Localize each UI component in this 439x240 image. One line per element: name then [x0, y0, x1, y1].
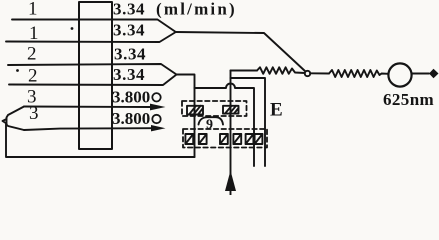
svg-text:3: 3 [29, 103, 39, 124]
wire valve left vertical V1 [194, 88, 196, 157]
channel line 4 (reagent 2) [9, 75, 177, 86]
speck dot 2 [16, 69, 19, 72]
valve lower port 1 [185, 134, 193, 144]
wire second right drop [231, 78, 266, 166]
svg-text:(ml/min): (ml/min) [156, 0, 237, 19]
svg-text:1: 1 [29, 23, 39, 44]
svg-text:2: 2 [27, 44, 37, 65]
valve lower port 5 [246, 134, 254, 144]
svg-text:625nm: 625nm [383, 90, 434, 109]
channel line 6 (carrier 3) [24, 128, 151, 130]
valve port A (hatched) [187, 106, 203, 115]
arrowhead line 5 [150, 104, 166, 111]
arrowhead line 6 [151, 125, 166, 131]
sample inlet vertical with valve pass-through [230, 71, 232, 196]
svg-text:3.34: 3.34 [113, 65, 145, 84]
svg-text:E: E [270, 100, 283, 121]
reservoir wedge beak [3, 119, 7, 124]
flow rate circle row 5 [152, 93, 160, 101]
waste terminal dot [429, 69, 439, 78]
svg-text:9: 9 [206, 118, 213, 133]
wire merged stream 3+4 into valve [177, 75, 195, 89]
valve lower port 3 [220, 134, 228, 144]
flow rate circle row 6 [152, 115, 160, 123]
reaction coil 2 [329, 70, 388, 77]
channel line 2 (reagent 1) [6, 32, 176, 42]
svg-text:3.34: 3.34 [113, 0, 145, 19]
wire valve outlet to coil 1 [231, 70, 258, 72]
valve lower port 2 [199, 134, 207, 144]
svg-text:3.34: 3.34 [114, 45, 146, 64]
valve lower port 6 [255, 134, 263, 144]
wire detector to waste [412, 73, 429, 75]
pump P (peristaltic pump body) [79, 2, 112, 149]
svg-text:1: 1 [28, 0, 38, 20]
channel line 1 (reagent 1) [12, 20, 176, 33]
svg-text:3.34: 3.34 [113, 21, 145, 40]
mixing coil 1 [257, 67, 305, 74]
channel line 3 (reagent 2) [8, 64, 177, 75]
valve lower port 4 [233, 134, 241, 144]
detector flow cell circle [388, 63, 411, 86]
wire merged stream 1+2 [176, 32, 306, 72]
svg-text:2: 2 [28, 66, 38, 87]
valve port B (hatched) [223, 106, 239, 114]
svg-text:3.800: 3.800 [112, 109, 150, 128]
injection valve lower body (dashed) [183, 129, 267, 148]
speck dot 1 [71, 27, 74, 30]
junction confluence point [305, 71, 310, 76]
wire junction to coil 2 [310, 72, 329, 74]
injection valve upper body (dashed) [182, 101, 247, 116]
reservoir wedge channel 3 inlet [7, 107, 25, 131]
sample arrowhead (injection, pointing up) [225, 171, 236, 192]
channel line 5 (carrier 3) [24, 106, 150, 109]
svg-text:3.800: 3.800 [112, 88, 150, 107]
wire bottom return line [6, 124, 195, 157]
wire crossover from V1 to valve right drop [195, 84, 255, 167]
sample loop arc [199, 117, 224, 124]
